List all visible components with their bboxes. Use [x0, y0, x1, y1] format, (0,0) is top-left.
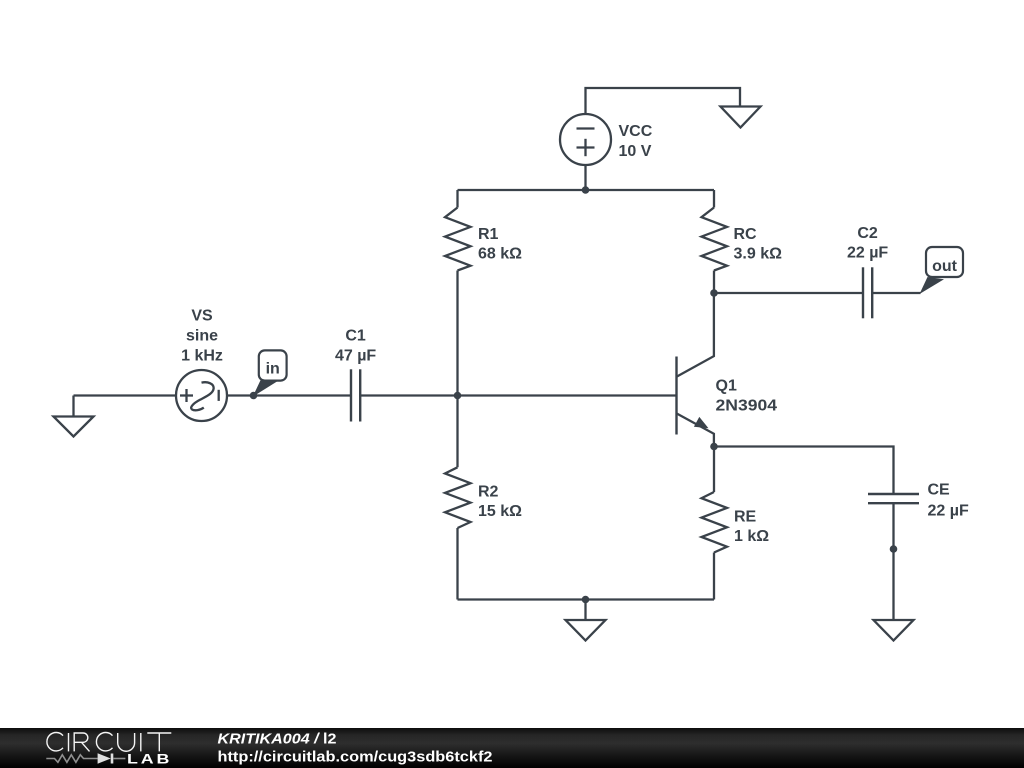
- svg-text:22 µF: 22 µF: [847, 245, 888, 262]
- resistor R1: [445, 190, 471, 396]
- svg-text:Q1: Q1: [716, 378, 737, 395]
- svg-text:47 µF: 47 µF: [335, 348, 376, 365]
- svg-text:CE: CE: [928, 482, 951, 499]
- label C1 47 µF: [335, 328, 376, 365]
- label C2 22 µF: [847, 225, 888, 262]
- CircuitLab logo resistor-diode: [46, 753, 125, 763]
- bottom bar: [0, 728, 1024, 768]
- svg-text:C1: C1: [345, 328, 366, 345]
- resistor RC: [702, 190, 728, 293]
- voltage source VCC: [560, 114, 611, 165]
- CircuitLab logo CIRCUIT: [47, 733, 171, 752]
- svg-text:VS: VS: [191, 308, 213, 325]
- label CE 22 µF: [928, 482, 969, 520]
- capacitor C2: [863, 267, 872, 318]
- svg-text:1 kHz: 1 kHz: [181, 348, 223, 365]
- svg-text:15 kΩ: 15 kΩ: [478, 503, 522, 520]
- wire emitter node to CE: [714, 447, 894, 495]
- wire bottom rail: [458, 598, 715, 600]
- junction bottom rail: [582, 596, 590, 604]
- svg-text:10 V: 10 V: [619, 143, 652, 160]
- ground G3 (bottom center): [566, 620, 606, 641]
- svg-text:KRITIKA004 / l2: KRITIKA004 / l2: [218, 731, 337, 748]
- label R1 68 kΩ: [478, 226, 522, 263]
- wire C2 to out flag: [872, 292, 920, 294]
- svg-text:R1: R1: [478, 226, 499, 243]
- svg-text:2N3904: 2N3904: [716, 398, 778, 415]
- svg-text:VCC: VCC: [619, 123, 653, 140]
- voltage source VS: [176, 370, 227, 421]
- ground G4 (left): [54, 396, 94, 437]
- junction top rail node: [582, 186, 590, 194]
- svg-text:3.9 kΩ: 3.9 kΩ: [734, 246, 783, 263]
- wire C1 to base node: [360, 394, 457, 396]
- ground G1 (top right): [721, 107, 761, 128]
- svg-text:out: out: [932, 258, 958, 275]
- wire VCC to top rail: [584, 165, 586, 190]
- wire VCC top to ground: [586, 88, 741, 114]
- svg-text:1 kΩ: 1 kΩ: [734, 528, 769, 545]
- label R2 15 kΩ: [478, 484, 522, 521]
- junction base node: [454, 392, 462, 400]
- label RC 3.9 kΩ: [734, 226, 783, 263]
- junction collector node: [710, 289, 718, 297]
- capacitor C1: [351, 369, 360, 421]
- wire junction to bottom ground: [584, 600, 586, 621]
- junction in node: [250, 392, 258, 400]
- svg-text:LAB: LAB: [127, 752, 172, 767]
- transistor Q1: [677, 293, 714, 447]
- resistor RE: [702, 447, 728, 600]
- capacitor CE: [868, 494, 919, 503]
- svg-text:in: in: [266, 361, 280, 378]
- svg-text:RC: RC: [734, 226, 758, 243]
- svg-text:RE: RE: [734, 509, 757, 526]
- label Q1 2N3904: [716, 378, 778, 415]
- wire left ground to VS: [74, 394, 177, 396]
- label VCC 10 V: [619, 123, 653, 160]
- wire base node to Q1: [458, 394, 677, 396]
- wire collector node to C2: [714, 292, 863, 294]
- svg-text:sine: sine: [186, 328, 218, 345]
- resistor R2: [445, 396, 471, 600]
- svg-text:http://circuitlab.com/cug3sdb6: http://circuitlab.com/cug3sdb6tckf2: [218, 748, 493, 765]
- label VS sine 1 kHz: [181, 308, 223, 365]
- ground G2 (under CE): [874, 620, 914, 641]
- wire CE to ground: [892, 503, 894, 620]
- junction emitter node: [710, 443, 718, 451]
- svg-text:68 kΩ: 68 kΩ: [478, 246, 522, 263]
- svg-text:R2: R2: [478, 484, 499, 501]
- flag in: [253, 350, 287, 396]
- wire top rail: [458, 189, 715, 191]
- wire VS to C1: [227, 394, 351, 396]
- flag out: [920, 247, 964, 294]
- junction CE bottom: [890, 545, 898, 553]
- label RE 1 kΩ: [734, 509, 769, 546]
- svg-text:C2: C2: [857, 225, 878, 242]
- svg-text:22 µF: 22 µF: [928, 503, 969, 520]
